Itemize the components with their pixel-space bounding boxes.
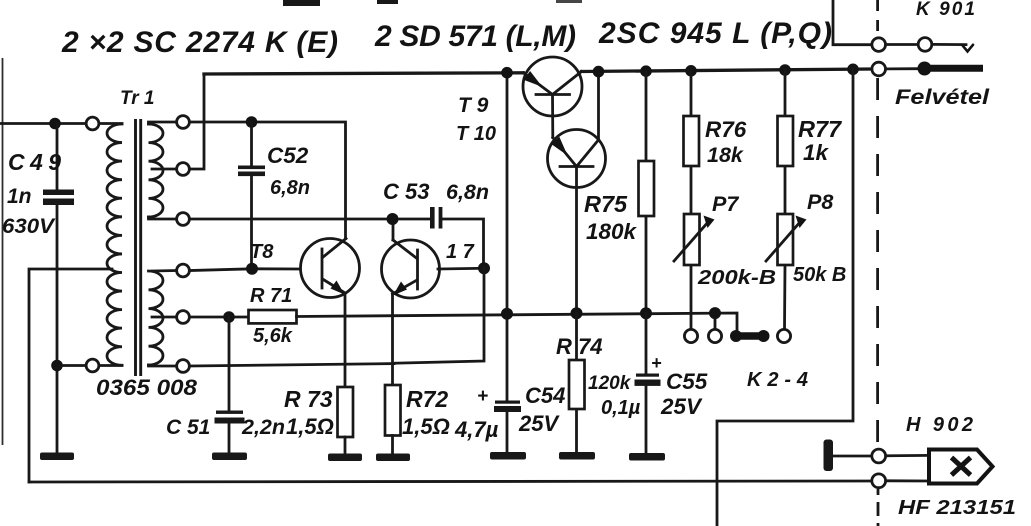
svg-text:+: +: [651, 353, 662, 373]
wire C55 stem: [645, 313, 648, 452]
svg-text:1,5Ω: 1,5Ω: [286, 414, 334, 439]
node junction R71 line mid: [501, 308, 513, 320]
ground C55: [629, 453, 665, 461]
svg-text:R 74: R 74: [556, 334, 602, 359]
svg-text:1,5Ω: 1,5Ω: [402, 414, 450, 439]
resistor R75: [639, 161, 655, 216]
svg-text:C54: C54: [525, 383, 565, 408]
svg-text:25V: 25V: [518, 411, 560, 436]
svg-text:R 71: R 71: [250, 285, 292, 307]
ground C54: [490, 452, 526, 460]
node junction R76 rail: [685, 65, 697, 77]
node junction R75 rail: [640, 65, 652, 77]
wire T8 emitter to R73: [344, 293, 347, 387]
resistor R72: [385, 385, 401, 436]
ground C49 column: [40, 453, 74, 461]
transistor T9: [523, 57, 582, 138]
terminal circle sec tap5: [177, 311, 190, 324]
terminal circle K2-4 b: [708, 329, 721, 342]
node junction R77 rail: [779, 64, 791, 76]
wire right branch down: [717, 69, 853, 526]
wire H902 lower to plug: [886, 479, 929, 482]
svg-text:R76: R76: [705, 117, 747, 142]
wire C51 stem: [228, 317, 231, 452]
wire T7 emitter to R72: [391, 294, 394, 385]
wire primary center tap: [29, 269, 112, 482]
transformer Tr1 secondary lower coil: [149, 271, 164, 365]
switch K2-4 contact stub: [714, 313, 717, 329]
node junction T7 base: [478, 262, 490, 274]
svg-text:0,1µ: 0,1µ: [601, 397, 641, 419]
svg-text:4,7µ: 4,7µ: [454, 417, 499, 442]
wire sec tap1: [149, 122, 177, 124]
tape head H902 bar: [824, 440, 834, 472]
svg-text:2,2n: 2,2n: [241, 415, 285, 439]
wire bottom rail: [29, 481, 872, 482]
svg-text:R75: R75: [584, 191, 628, 217]
terminal circle H902 upper: [872, 449, 886, 463]
dashed boundary line middle: [876, 78, 879, 448]
wire transformer bottom long: [190, 364, 395, 366]
node junction C53 left: [387, 213, 399, 225]
wire head to circle: [833, 455, 872, 458]
terminal circle sec tap4: [177, 264, 190, 277]
terminal circle K901 a: [872, 38, 886, 52]
wire top rail left: [204, 73, 523, 74]
resistor R76: [684, 116, 700, 166]
wire K901 out with arrow: [932, 43, 966, 46]
wire tap2 up to top rail: [190, 74, 205, 169]
svg-text:1 7: 1 7: [446, 241, 475, 263]
svg-text:2 ×2 SC 2274 K (E): 2 ×2 SC 2274 K (E): [61, 26, 338, 59]
capacitor C55: [636, 374, 659, 377]
svg-text:Felvétel: Felvétel: [895, 86, 990, 109]
node terminal Felvetel filled: [918, 62, 932, 76]
svg-text:180k: 180k: [586, 219, 638, 244]
terminal circle K901 b: [918, 38, 932, 52]
svg-text:T 9: T 9: [458, 94, 489, 117]
wire C49 column: [56, 124, 59, 453]
svg-text:6,8n: 6,8n: [446, 180, 489, 204]
potentiometer P7: [674, 214, 715, 265]
wire K901 mid: [886, 43, 918, 46]
wire sec tap3: [149, 217, 177, 219]
svg-text:0365 008: 0365 008: [96, 375, 198, 400]
svg-text:25V: 25V: [660, 394, 703, 419]
connector plug X: [952, 458, 971, 476]
top cut-off text mark 1: [283, 0, 320, 6]
wire sec tap6: [149, 365, 177, 366]
svg-text:T 10: T 10: [456, 123, 496, 145]
wire tap5 through R71: [190, 316, 249, 319]
dashed boundary line bottom: [877, 489, 880, 526]
svg-text:K 2 - 4: K 2 - 4: [747, 369, 808, 391]
resistor R71: [249, 310, 297, 323]
transistor T10: [548, 130, 606, 314]
capacitor C52: [238, 166, 265, 170]
wire tap4 to T8 base: [190, 269, 301, 271]
wire R75 column: [645, 71, 648, 313]
connector plug pentagon: [929, 450, 993, 484]
wire R71 right to K2-4 corner: [297, 313, 738, 333]
wire bracket from above: [833, 0, 872, 45]
terminal circle sec tap1: [177, 116, 190, 129]
svg-text:C 51: C 51: [166, 416, 210, 439]
svg-text:6,8n: 6,8n: [270, 177, 310, 199]
svg-text:630V: 630V: [2, 215, 56, 238]
transformer Tr1 primary coil: [107, 124, 122, 365]
svg-text:R77: R77: [798, 116, 842, 142]
wire sec tap2 stub: [152, 168, 177, 171]
node junction K2-4: [709, 307, 721, 319]
wire primary bottom tap: [62, 364, 122, 367]
terminal circle Felvetel left: [872, 62, 886, 76]
switch K2-4 moving contact: [730, 330, 770, 342]
svg-text:P7: P7: [712, 192, 739, 216]
svg-text:C 53: C 53: [383, 179, 429, 204]
wire Felvetel thick out: [925, 65, 984, 72]
terminal circle H902 lower: [872, 474, 886, 488]
terminal circle K2-4 a: [684, 329, 697, 342]
svg-text:T8: T8: [250, 241, 274, 263]
svg-text:5,6k: 5,6k: [253, 325, 293, 347]
transformer Tr1 secondary upper coil: [149, 124, 164, 217]
wire H902 upper to plug: [886, 454, 929, 457]
wire node down to bottom winding wire: [394, 268, 484, 363]
node junction T10 collector: [593, 66, 605, 78]
wire R72 to ground: [391, 436, 394, 454]
node junction C52 top: [246, 116, 258, 128]
resistor R74: [569, 360, 585, 409]
wire top rail right: [582, 69, 872, 72]
transistor T8: [301, 239, 360, 298]
terminal circle primary bottom: [86, 359, 99, 372]
arrow v K901: [962, 45, 973, 52]
svg-text:18k: 18k: [707, 143, 744, 167]
svg-text:50k B: 50k B: [793, 264, 846, 286]
svg-text:2SC 945 L (P,Q): 2SC 945 L (P,Q): [598, 17, 832, 50]
capacitor C51: [216, 411, 243, 414]
svg-text:HF 213151: HF 213151: [898, 497, 1016, 519]
wire T10 collector up to rail: [597, 72, 600, 140]
capacitor C54: [495, 401, 520, 404]
terminal circle sec tap2: [177, 163, 190, 176]
wire sec tap5: [152, 316, 177, 319]
wire sec tap4: [152, 269, 177, 272]
transformer Tr1 core: [136, 119, 141, 376]
node junction T8 base: [246, 263, 258, 275]
wire tap1 to T8 collector corner: [190, 122, 346, 239]
wire C52 stems: [250, 122, 253, 269]
wire T7 base to node: [438, 267, 484, 271]
wire T7 collector up: [392, 219, 395, 240]
svg-text:R 73: R 73: [284, 386, 333, 412]
ground R74: [559, 452, 595, 460]
ground C51: [212, 453, 247, 461]
svg-text:K 901: K 901: [916, 0, 975, 20]
resistor R73: [338, 387, 354, 437]
svg-text:C52: C52: [267, 143, 309, 168]
capacitor C49: [43, 190, 74, 196]
svg-text:C55: C55: [666, 369, 708, 394]
terminal circle primary top: [86, 117, 99, 130]
ground R72: [376, 454, 410, 462]
terminal circle K2-4 c: [777, 329, 790, 342]
terminal circle sec tap3: [177, 213, 190, 226]
node junction C54 rail: [501, 67, 513, 79]
node junction K901 branch: [847, 64, 859, 76]
svg-text:120k: 120k: [588, 373, 632, 394]
transistor T7: [382, 240, 440, 298]
ground R73: [328, 454, 362, 462]
node junction C55 line: [640, 307, 652, 319]
node junction primary bottom: [51, 360, 63, 372]
wire tap3 to C53: [190, 218, 430, 221]
wire Felvetel mid: [886, 67, 918, 70]
node junction T10 base line: [571, 307, 583, 319]
svg-text:R72: R72: [406, 386, 448, 412]
resistor R77: [778, 116, 794, 166]
terminal circle sec tap6: [177, 360, 190, 373]
dashed boundary line top: [876, 0, 879, 37]
page edge line left: [2, 58, 4, 445]
wire R77 column: [783, 70, 786, 330]
top cut-off text mark 3: [556, 0, 582, 3]
wire R76 column: [690, 71, 693, 330]
wire left input to transformer top: [0, 122, 122, 125]
node junction C49 top: [49, 118, 61, 130]
capacitor C53: [430, 207, 435, 229]
svg-text:2 SD 571 (L,M): 2 SD 571 (L,M): [374, 20, 576, 53]
svg-text:200k-B: 200k-B: [697, 267, 776, 289]
wire C53 right down to T7 base node: [442, 219, 483, 268]
svg-text:H 902: H 902: [906, 414, 973, 436]
node junction C51 top: [223, 311, 235, 323]
wire R74 column: [575, 313, 578, 452]
wire C54 column: [506, 73, 509, 453]
svg-text:P8: P8: [807, 190, 833, 214]
svg-text:+: +: [477, 386, 488, 407]
svg-text:1n: 1n: [7, 185, 32, 208]
potentiometer P8: [766, 214, 807, 265]
svg-text:Tr 1: Tr 1: [120, 88, 155, 109]
wire R73 to ground: [344, 437, 347, 453]
svg-text:1k: 1k: [803, 140, 830, 165]
top cut-off text mark 2: [377, 0, 398, 4]
svg-text:C49: C49: [8, 149, 61, 175]
